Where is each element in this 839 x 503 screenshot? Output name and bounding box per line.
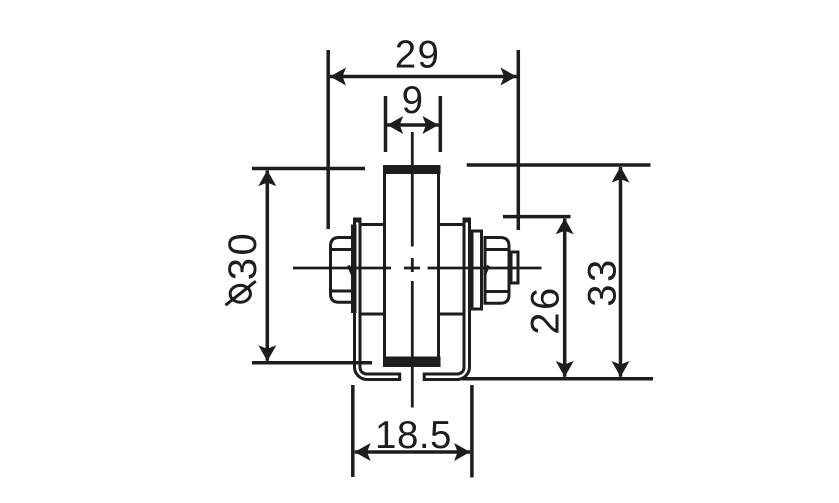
svg-text:18.5: 18.5	[375, 414, 452, 457]
svg-text:26: 26	[524, 285, 568, 335]
svg-text:33: 33	[581, 257, 625, 307]
svg-text:30: 30	[221, 231, 265, 281]
svg-text:29: 29	[395, 34, 441, 77]
svg-text:9: 9	[402, 79, 425, 122]
